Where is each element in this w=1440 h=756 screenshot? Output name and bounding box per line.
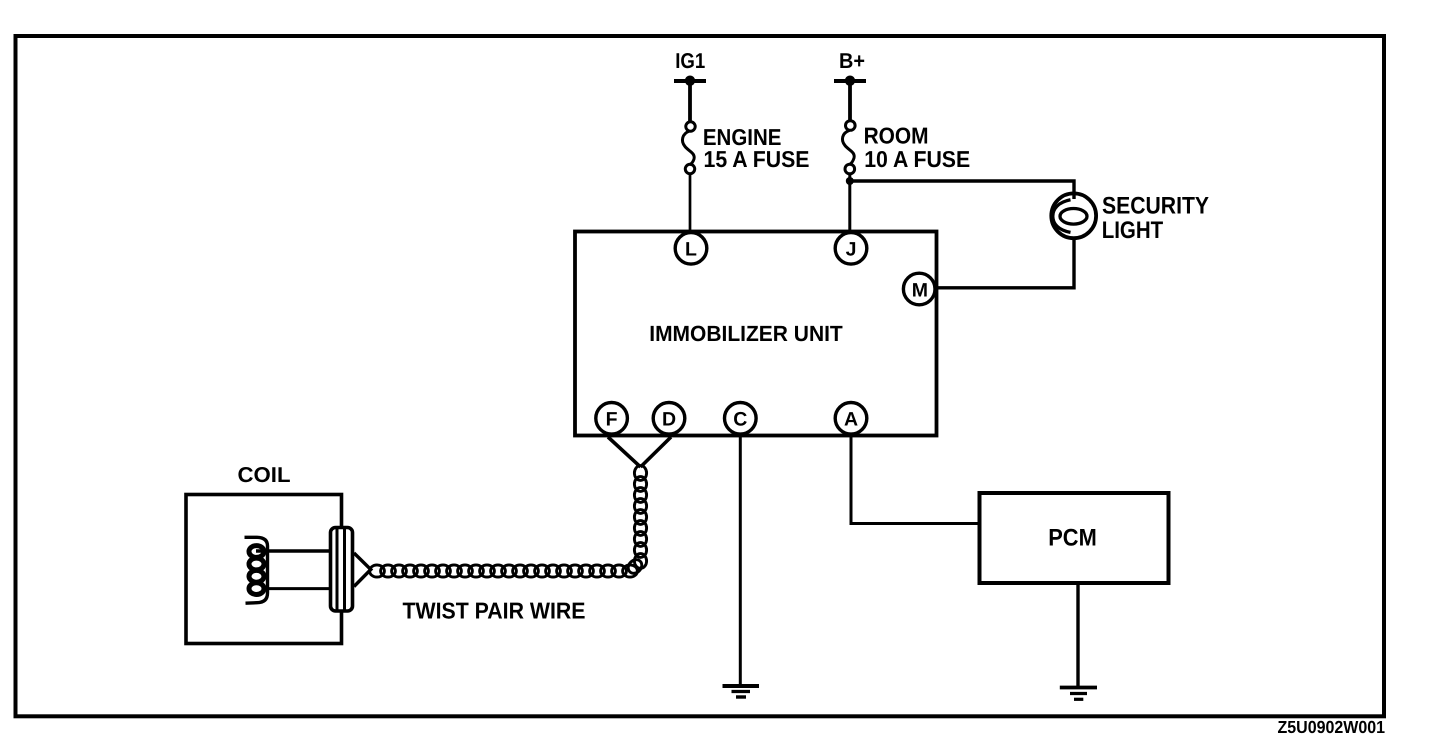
twisted pair vertical run xyxy=(634,466,646,569)
svg-text:10 A FUSE: 10 A FUSE xyxy=(864,146,970,172)
wire pin A to PCM xyxy=(851,436,978,524)
svg-text:ROOM: ROOM xyxy=(864,123,929,149)
svg-text:J: J xyxy=(846,238,857,260)
svg-text:COIL: COIL xyxy=(238,463,291,487)
pin L xyxy=(675,233,707,265)
svg-text:F: F xyxy=(606,408,618,430)
label SECURITY LIGHT xyxy=(1102,193,1209,245)
coil box xyxy=(186,495,342,644)
svg-text:PCM: PCM xyxy=(1048,525,1097,552)
fuse ENGINE 15 A xyxy=(682,122,695,174)
PCM box xyxy=(980,493,1169,583)
ground at PCM xyxy=(1060,688,1097,700)
svg-text:L: L xyxy=(685,238,697,260)
svg-text:Z5U0902W001: Z5U0902W001 xyxy=(1278,717,1386,737)
wire fuse to pin J xyxy=(848,174,851,233)
pin M xyxy=(903,273,935,305)
wire coil to connector bottom xyxy=(264,587,331,590)
wire junction to security light xyxy=(851,181,1074,199)
pin D xyxy=(653,403,685,435)
inductor coil winding xyxy=(245,537,268,603)
label ROOM 10 A FUSE xyxy=(864,123,971,173)
lamp SECURITY LIGHT xyxy=(1051,193,1096,238)
twisted pair horizontal run xyxy=(370,557,645,577)
fuse ROOM 10 A xyxy=(842,121,855,174)
svg-text:A: A xyxy=(844,408,858,430)
svg-text:TWIST PAIR WIRE: TWIST PAIR WIRE xyxy=(403,598,586,624)
junction at B+ fuse output xyxy=(846,177,854,185)
svg-text:B+: B+ xyxy=(839,49,865,73)
node IG1 xyxy=(674,49,706,86)
svg-text:SECURITY: SECURITY xyxy=(1102,193,1209,220)
svg-text:15 A FUSE: 15 A FUSE xyxy=(704,146,810,172)
wire pin C to ground xyxy=(739,436,742,687)
pin F xyxy=(596,403,628,435)
ground at pin C xyxy=(723,686,760,697)
wire security light to pin M xyxy=(936,239,1074,288)
svg-text:IMMOBILIZER UNIT: IMMOBILIZER UNIT xyxy=(649,321,843,346)
svg-text:C: C xyxy=(733,408,747,430)
wire PCM to ground xyxy=(1076,584,1079,688)
pin J xyxy=(835,233,867,265)
svg-text:IG1: IG1 xyxy=(675,49,705,73)
wire B+ to fuse xyxy=(848,80,852,122)
svg-text:LIGHT: LIGHT xyxy=(1102,217,1164,244)
pin C xyxy=(725,403,757,435)
immobilizer unit box xyxy=(575,232,937,436)
connector to coil xyxy=(331,528,371,612)
wire pin D to twist junction xyxy=(641,437,672,467)
wire coil to connector top xyxy=(256,549,331,553)
pin A xyxy=(835,403,867,435)
label ENGINE 15 A FUSE xyxy=(703,124,810,172)
wire fuse to pin L xyxy=(689,174,692,233)
svg-text:D: D xyxy=(662,408,676,430)
node B+ xyxy=(834,49,866,86)
wire IG1 to fuse xyxy=(688,80,692,123)
svg-text:M: M xyxy=(912,279,928,301)
wire pin F to twist junction xyxy=(608,437,641,467)
